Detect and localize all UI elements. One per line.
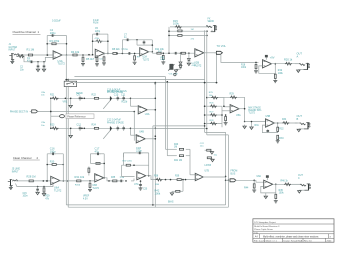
diode D2 [179, 65, 182, 67]
wire input rail 2 [17, 180, 51, 182]
resistor R20 [284, 58, 293, 65]
svg-text:R19: R19 [278, 70, 283, 72]
transistor Q2 (jfet) [103, 127, 112, 139]
svg-text:Rev 3.0: Rev 3.0 [304, 241, 312, 243]
svg-text:U7A: U7A [134, 183, 139, 186]
svg-text:R8 22k: R8 22k [112, 48, 120, 51]
ground (D3) [187, 61, 190, 66]
wire stageB1 out [59, 180, 94, 182]
svg-text:BUS: BUS [231, 173, 236, 175]
svg-text:Clean Channel: Clean Channel [13, 156, 32, 160]
ground (C15) [36, 192, 39, 195]
wire M3 vbox [221, 106, 223, 127]
wire fbB1 left [46, 154, 48, 182]
svg-text:R29: R29 [230, 94, 235, 96]
svg-text:R45: R45 [279, 190, 284, 192]
resistor R1 [27, 48, 35, 56]
svg-text:R32: R32 [279, 129, 284, 131]
capacitor C17 (fbB2) [95, 147, 101, 156]
wire M2 out [145, 138, 156, 140]
ground (R33) [276, 140, 280, 143]
svg-text:100k: 100k [241, 67, 247, 69]
wire M3 stub2 [204, 103, 222, 108]
wire fb3 left [121, 40, 123, 54]
wire U5B in [245, 121, 266, 123]
wire bus bottom2 [68, 206, 228, 208]
svg-text:R27: R27 [210, 111, 215, 113]
capacitor C22 (bus) [200, 143, 214, 154]
svg-text:100p: 100p [50, 149, 56, 153]
capacitor C14 [122, 126, 125, 131]
wire bus H-3 [74, 82, 217, 84]
wire fb5 [259, 64, 276, 74]
svg-text:+9V: +9V [270, 55, 275, 59]
svg-text:TL072: TL072 [194, 63, 202, 67]
wire fbB1 right [62, 154, 64, 181]
ground (J1 sleeve) [10, 61, 14, 64]
label C20 [143, 184, 160, 190]
wire fbB3 right [148, 153, 150, 177]
label D1 D2 [192, 63, 198, 67]
svg-text:U7B: U7B [205, 171, 210, 173]
svg-text:A: A [297, 54, 299, 58]
label U6B [75, 185, 100, 190]
svg-text:R9: R9 [137, 57, 141, 59]
resistor R12 (to gnd) [162, 54, 164, 61]
wire fb top [47, 35, 66, 37]
node bus junction [67, 79, 69, 81]
svg-text:R5 4k7: R5 4k7 [86, 57, 95, 61]
svg-text:Multi-Fx Board Revision 3: Multi-Fx Board Revision 3 [254, 225, 280, 228]
wire stageB2 out [103, 178, 120, 181]
svg-text:R28 1M: R28 1M [27, 175, 36, 179]
jack J5 (line in) [8, 179, 18, 186]
svg-text:GUITAR: GUITAR [9, 46, 18, 49]
svg-text:100k: 100k [160, 59, 166, 61]
wire bus V-R1 [225, 132, 227, 205]
wire stage5 out [271, 63, 297, 65]
svg-text:R12: R12 [158, 51, 163, 53]
svg-text:10u: 10u [214, 154, 218, 156]
svg-text:C9b: C9b [41, 122, 46, 124]
node N [165, 179, 172, 181]
svg-text:TL072: TL072 [58, 62, 66, 66]
resistor R16 (fb4) [177, 29, 194, 32]
svg-text:R25: R25 [209, 92, 214, 94]
svg-text:1M: 1M [174, 147, 177, 149]
op-amp U7A [134, 172, 146, 186]
resistor R4 [71, 50, 80, 56]
wire fb4 top [170, 26, 208, 28]
capacitor C3 [43, 62, 46, 69]
svg-text:100k: 100k [278, 73, 284, 75]
svg-text:4.5V: 4.5V [83, 198, 88, 200]
capacitor C20 (to gnd) [139, 180, 142, 187]
svg-text:1: 1 [38, 30, 40, 34]
wire fbB1 mid [46, 164, 64, 166]
wire fbB1 top [47, 153, 63, 155]
varistor VR1 wiper [69, 98, 72, 108]
svg-text:R30: R30 [50, 161, 55, 164]
ground (R44) [252, 189, 256, 192]
wire bus V-M1 [204, 30, 226, 132]
svg-text:100k: 100k [173, 22, 179, 26]
svg-text:2: 2 [37, 156, 39, 160]
resistor R8 [112, 48, 121, 55]
connector FROM-BUS [228, 171, 237, 182]
resistor R15 (fb4) [173, 19, 182, 28]
wire fb4 mid1 [169, 30, 208, 32]
node M [108, 180, 127, 182]
svg-text:U6B: U6B [92, 185, 97, 187]
ground (J6) [298, 190, 305, 193]
ground (R19) [273, 80, 277, 83]
label R29 [23, 193, 51, 200]
svg-text:220p: 220p [95, 31, 101, 33]
wire fb U5A top [224, 94, 245, 99]
resistor R38 [154, 176, 162, 181]
svg-text:R1 1M: R1 1M [27, 48, 35, 52]
node G [180, 52, 182, 54]
svg-text:220p: 220p [136, 149, 142, 153]
resistor R18 (to gnd) [255, 62, 257, 70]
svg-text:R41 1M: R41 1M [174, 160, 182, 162]
resistor R33 (to gnd) [277, 135, 284, 140]
wire B4 in [236, 180, 264, 182]
svg-text:U8A: U8A [257, 175, 262, 178]
wire stageB4 out [273, 183, 301, 185]
svg-text:C19: C19 [120, 177, 125, 179]
resistor R7 (to gnd) [96, 56, 98, 63]
wire fbM1 right [155, 83, 157, 208]
jack J6 (output C) [292, 184, 311, 191]
capacitor C19 [118, 177, 124, 182]
svg-text:100p: 100p [50, 31, 56, 35]
wire stage3 out [148, 52, 195, 53]
wire rail2 [51, 127, 131, 129]
wire M3 stub1 [207, 92, 224, 99]
wire fbM4 [262, 123, 277, 133]
label VR3 [160, 57, 178, 76]
ground (C3) [42, 69, 45, 72]
wire conn feed [226, 179, 231, 181]
wire fb4 right [216, 52, 218, 83]
ground (D2) [174, 68, 180, 73]
svg-text:1M: 1M [191, 29, 194, 31]
label R44 [244, 186, 249, 189]
resistor R13 [180, 52, 187, 54]
svg-text:INPUT: INPUT [12, 172, 19, 174]
svg-text:TL072: TL072 [248, 113, 255, 115]
capacitor C5 (fb2) [93, 20, 101, 36]
svg-text:Sheet: 1 / 1: Sheet: 1 / 1 [266, 240, 278, 243]
node B [82, 54, 84, 56]
capacitor C13 [117, 126, 120, 131]
capacitor C11 [121, 94, 126, 101]
switch box SW1 [64, 81, 76, 86]
capacitor C8 [173, 52, 179, 55]
wire fbM2 right [155, 135, 157, 137]
label R18 [241, 64, 247, 69]
capacitor C9 [77, 94, 82, 101]
label R5 [86, 57, 95, 61]
resistor R45 (to gnd) [275, 193, 277, 200]
resistor R9 (to gnd) [134, 53, 136, 62]
jack J3 (output A) [295, 63, 310, 70]
wire bus H-1 [74, 76, 165, 78]
wire rail split [50, 98, 52, 130]
op-amp U5B [266, 115, 275, 127]
node stage1 out [66, 54, 68, 56]
svg-text:PHASE STAGE: PHASE STAGE [107, 121, 124, 124]
svg-text:LF353: LF353 [205, 165, 212, 167]
node rail2 a [41, 122, 85, 129]
wire M1-M2 link [133, 112, 135, 141]
svg-text:TL072: TL072 [143, 59, 150, 61]
wire diode drop [180, 53, 182, 61]
label U7B part [205, 165, 212, 167]
node H [188, 52, 190, 54]
wire fbB2 left [89, 154, 91, 164]
label mid note [107, 90, 124, 95]
op-amp U2A [52, 20, 150, 62]
capacitor C10 [114, 94, 119, 101]
wire bus V-L1 [165, 77, 167, 150]
title block [253, 219, 334, 243]
resistor R21 [50, 94, 59, 100]
svg-text:47p: 47p [95, 149, 100, 153]
resistor R2 [17, 55, 24, 58]
resistor R31 (to gnd) [251, 121, 253, 126]
wire stage1 out [62, 54, 94, 56]
wire lower branch [16, 56, 53, 62]
svg-text:C8b: C8b [41, 92, 46, 94]
connector PH-IN [30, 110, 38, 113]
svg-text:2004: 2004 [327, 241, 333, 243]
svg-text:Multi-effect: overdrive, phase: Multi-effect: overdrive, phase and clean… [263, 235, 319, 238]
wire bus drop x154 [155, 83, 157, 85]
label bottom notes 2 [168, 200, 174, 203]
resistor R17 (fb4) [177, 35, 195, 41]
ground (R12) [158, 51, 165, 64]
capacitor C4 (feedback) [50, 34, 56, 37]
svg-text:R20 1k: R20 1k [284, 58, 293, 62]
svg-text:Phase Triple Driver: Phase Triple Driver [254, 228, 273, 231]
wire fb U5A left [223, 97, 230, 107]
capacitor C1 [27, 58, 34, 63]
resistor R44 (to gnd) [253, 180, 255, 189]
op-amp U2B [194, 49, 204, 68]
wire bus V-L2 [167, 81, 169, 156]
jack J2 (fx send) [206, 18, 217, 32]
svg-text:Phase Reference: Phase Reference [67, 115, 86, 118]
power V+ (U3A) [265, 55, 275, 60]
svg-text:R24: R24 [92, 124, 97, 127]
ground (R7) [95, 63, 99, 66]
resistor R19 (to gnd) [274, 73, 276, 80]
resistor R22 [92, 94, 100, 100]
label IN1 note [9, 44, 18, 51]
wire bus V-M2 [206, 30, 228, 135]
wire M3 stub3 [204, 111, 222, 116]
power V+ (U8A) [266, 175, 269, 180]
ground (R5) [81, 63, 85, 66]
capacitor C18 (fbB3) [136, 146, 143, 154]
resistor R11 [155, 48, 165, 54]
capacitor C23 (bus) [207, 154, 218, 161]
resistor R35 [111, 177, 118, 182]
op-amp U8A [257, 175, 273, 189]
op-amp U4A [138, 106, 150, 116]
svg-text:R34: R34 [282, 119, 287, 121]
svg-text:Overdrive Channel: Overdrive Channel [13, 30, 37, 34]
wire fbM1 left [130, 98, 138, 107]
connector pad [174, 73, 176, 75]
wire fb2 sides [88, 34, 108, 55]
label rail1 low [122, 100, 128, 103]
label J4 [297, 114, 303, 121]
node P [253, 180, 255, 182]
resistor R10 (fb3) [137, 40, 152, 45]
capacitor C12 [77, 124, 82, 131]
svg-text:C5: C5 [95, 28, 99, 30]
svg-text:VR1: VR1 [63, 101, 68, 104]
ground (J3) [297, 70, 304, 73]
svg-text:R23: R23 [50, 124, 55, 127]
wire fbM2 top [131, 127, 156, 129]
wire M1 out [147, 109, 156, 111]
section heading: Clean channel [13, 156, 40, 160]
svg-text:R21: R21 [50, 94, 55, 97]
svg-text:U4A: U4A [145, 113, 150, 116]
ground (R18) [254, 70, 258, 73]
resistor R34 (fb link) [88, 167, 90, 176]
resistor R24 [92, 124, 100, 130]
svg-text:R31: R31 [255, 125, 260, 127]
section heading: Overdrive channel [13, 30, 41, 34]
op-amp U1A [53, 51, 65, 66]
wire bus V-A [65, 55, 67, 205]
resistor R23 [50, 124, 59, 130]
resistor R41 (lower) [167, 155, 190, 162]
node K [63, 180, 69, 182]
resistor R28 [27, 175, 36, 182]
ground (C2) [36, 69, 39, 72]
svg-text:C1: C1 [27, 58, 31, 60]
svg-text:C20: C20 [143, 189, 148, 191]
label bottom notes [155, 189, 161, 196]
label R45 [279, 190, 285, 195]
wire M3 stub4 [204, 120, 222, 125]
resistor R40 (upper) [166, 144, 191, 150]
wire fbB3 left [122, 165, 135, 176]
wire stage4 out [204, 52, 217, 54]
svg-text:100k: 100k [279, 193, 285, 195]
svg-text:OUT: OUT [298, 175, 303, 177]
svg-text:47k: 47k [191, 38, 195, 40]
diode D1 [179, 62, 182, 64]
wire into B3 [131, 179, 134, 181]
svg-text:U2A: U2A [143, 56, 148, 59]
ground (J4) [297, 129, 304, 132]
svg-text:47k: 47k [45, 198, 50, 200]
ground (R30) [224, 122, 228, 125]
node rail1 c [110, 98, 112, 100]
op-amp U7B (buffer) [195, 171, 209, 181]
svg-text:R26: R26 [210, 103, 215, 105]
wire lower branch 2 [16, 183, 54, 186]
svg-text:J5 LINE: J5 LINE [12, 169, 21, 171]
capacitor C7 (fb3) [124, 34, 130, 41]
svg-text:C15: C15 [23, 193, 28, 195]
resistor R39 [175, 176, 182, 181]
svg-text:0.1uF: 0.1uF [93, 20, 99, 22]
capacitor C2 [37, 62, 40, 69]
wire fbB2 top [90, 153, 104, 155]
svg-text:R36: R36 [155, 184, 160, 186]
resistor R3 (feedback) [50, 39, 60, 45]
svg-text:PHASE STAGE: PHASE STAGE [107, 91, 124, 94]
wire M4 out [272, 122, 298, 124]
svg-text:TO VOL: TO VOL [217, 44, 227, 48]
wire link2 [155, 128, 207, 130]
varistor VR2 wiper [69, 128, 72, 138]
svg-text:TL072: TL072 [92, 188, 99, 190]
svg-text:10n: 10n [41, 125, 45, 127]
svg-text:0.022uF: 0.022uF [52, 20, 61, 23]
svg-text:U5B: U5B [266, 115, 271, 118]
svg-text:10n: 10n [20, 69, 25, 71]
label R19 [278, 70, 284, 75]
svg-text:R4 10k: R4 10k [71, 50, 80, 54]
node J [37, 186, 45, 188]
wire fb4 left [168, 27, 170, 54]
svg-text:R38: R38 [154, 176, 159, 178]
resistor R37 (fbB3) [123, 153, 149, 166]
label C2 C3 [20, 67, 25, 72]
wire bus H-2 [68, 79, 204, 81]
svg-text:DIY Stompbox Project: DIY Stompbox Project [254, 221, 276, 224]
resistor R46 [281, 180, 292, 185]
resistor R30 (fbB1) [50, 161, 58, 166]
wire fb mid [47, 43, 66, 45]
label phase in [10, 110, 28, 113]
capacitor C16 (fbB1) [50, 147, 56, 156]
wire fb right [46, 36, 67, 56]
svg-text:PHASE SECT IN: PHASE SECT IN [10, 110, 28, 113]
node O [185, 179, 187, 181]
wire fb3 right [152, 40, 154, 52]
op-amp U4B [136, 131, 145, 143]
svg-text:INPUT: INPUT [9, 49, 16, 51]
wire input rail [18, 54, 53, 56]
svg-text:C2: C2 [20, 67, 24, 69]
svg-text:100k: 100k [155, 191, 161, 195]
wire stageB3 out [146, 176, 195, 180]
svg-text:B: B [297, 117, 299, 121]
svg-text:SEND: SEND [208, 21, 215, 23]
wire U7B out [203, 176, 226, 178]
wire bus V-B [67, 80, 69, 208]
svg-text:R35: R35 [111, 177, 116, 179]
ground (R9) [133, 57, 141, 65]
svg-text:U4B: U4B [139, 131, 144, 134]
wire to bus [211, 30, 213, 31]
label bias block [83, 196, 90, 201]
label bus2 [76, 92, 83, 95]
svg-text:BIAS: BIAS [168, 200, 174, 203]
op-amp U6B [95, 174, 104, 182]
